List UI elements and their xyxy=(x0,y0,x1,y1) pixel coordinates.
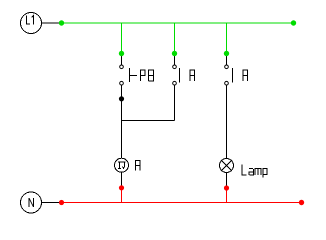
pushbutton PB xyxy=(120,65,137,85)
label R coil xyxy=(136,161,141,171)
wire branch2 down xyxy=(174,85,176,121)
contact R seal-in xyxy=(173,65,180,85)
node lamp neutral xyxy=(224,185,229,190)
label R contact2 xyxy=(190,70,195,81)
wire bottom rail N xyxy=(62,202,302,204)
node N rail start xyxy=(59,200,64,205)
wire seal-in connector xyxy=(122,120,175,122)
node coil neutral xyxy=(119,185,124,190)
wire coil drop red xyxy=(121,188,123,203)
lamp xyxy=(220,159,234,173)
wire branch3 to lamp xyxy=(226,85,228,159)
wire junction to coil xyxy=(121,99,123,158)
wire branch3 drop green xyxy=(226,23,228,54)
wire branch1 to PB xyxy=(121,54,123,66)
terminal N xyxy=(21,192,42,213)
coil R xyxy=(115,158,129,172)
node L1 rail start xyxy=(59,20,64,25)
label PB xyxy=(141,70,154,81)
node branch1 xyxy=(119,51,124,56)
wire lamp drop red xyxy=(226,188,228,203)
wire PB to junction xyxy=(121,85,123,99)
wire lamp to N node xyxy=(226,173,228,189)
label R contact3 xyxy=(243,70,248,81)
wire N stub xyxy=(42,202,62,204)
node branch2 xyxy=(172,51,177,56)
wire branch2 to contact xyxy=(174,54,176,66)
contact R lamp branch xyxy=(225,65,233,85)
wire branch3 to contact xyxy=(226,54,228,66)
node branch3 xyxy=(224,51,229,56)
wire L1 stub xyxy=(42,22,62,24)
label Lamp xyxy=(242,165,267,178)
node bottom rail end xyxy=(299,200,304,205)
wire coil to N node xyxy=(121,172,123,188)
wire branch2 drop green xyxy=(174,23,176,54)
node junction A xyxy=(119,96,124,101)
wire branch1 drop green xyxy=(121,23,123,54)
terminal L1 xyxy=(21,13,42,34)
node top rail end xyxy=(291,20,296,25)
wire top rail L1 xyxy=(62,22,294,24)
